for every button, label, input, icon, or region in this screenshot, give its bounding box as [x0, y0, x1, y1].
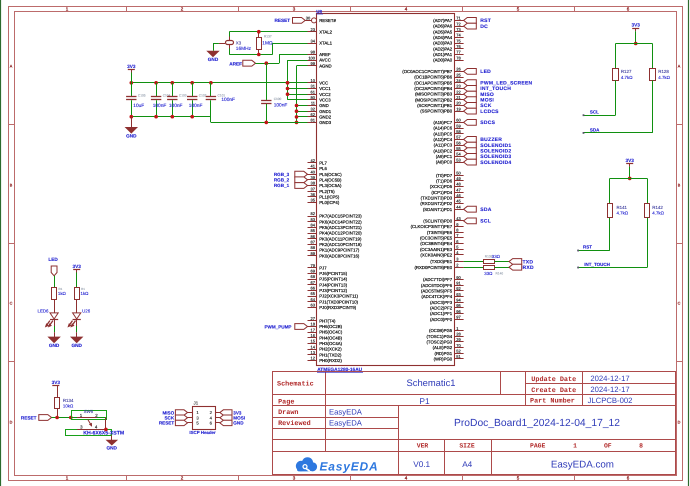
- svg-text:VCC: VCC: [319, 80, 328, 85]
- svg-text:66: 66: [311, 286, 316, 291]
- svg-text:(WR)PG0: (WR)PG0: [434, 357, 453, 362]
- svg-text:71: 71: [456, 16, 461, 21]
- svg-text:C105: C105: [138, 93, 146, 97]
- svg-text:RXD: RXD: [523, 265, 534, 271]
- svg-text:PH5(OC4C): PH5(OC4C): [319, 330, 343, 335]
- svg-text:42: 42: [311, 158, 316, 163]
- svg-text:45: 45: [456, 199, 461, 204]
- svg-text:32: 32: [311, 106, 316, 111]
- svg-text:PK5(ADC13PCINT21): PK5(ADC13PCINT21): [319, 225, 362, 230]
- svg-text:19: 19: [456, 106, 461, 111]
- svg-text:(ICP1)PD4: (ICP1)PD4: [431, 190, 452, 195]
- svg-text:24: 24: [456, 78, 461, 83]
- svg-text:59: 59: [456, 123, 461, 128]
- svg-text:PAGE: PAGE: [530, 442, 546, 449]
- svg-text:D: D: [678, 421, 681, 425]
- svg-text:10kΩ: 10kΩ: [63, 404, 74, 409]
- svg-text:PK1(ADC9PCINT17): PK1(ADC9PCINT17): [319, 248, 360, 253]
- svg-text:J1: J1: [194, 401, 199, 406]
- svg-text:100nF: 100nF: [274, 102, 288, 108]
- svg-text:R127: R127: [621, 69, 632, 74]
- svg-text:(AD3)PA3: (AD3)PA3: [433, 41, 453, 46]
- svg-text:(MISOPCINT3)PB3: (MISOPCINT3)PB3: [415, 92, 453, 97]
- svg-text:62: 62: [311, 112, 316, 117]
- svg-text:VCC3: VCC3: [319, 97, 331, 102]
- svg-text:(TXD0)PE1: (TXD0)PE1: [430, 259, 453, 264]
- svg-text:GND: GND: [233, 421, 244, 426]
- svg-text:(SCKPCINT1)PB1: (SCKPCINT1)PB1: [417, 103, 453, 108]
- svg-text:PJ7: PJ7: [319, 265, 327, 270]
- svg-text:(AD6)PA6: (AD6)PA6: [433, 24, 453, 29]
- svg-text:SW6: SW6: [84, 409, 94, 414]
- svg-text:B: B: [10, 184, 13, 188]
- svg-text:GND: GND: [71, 343, 82, 348]
- svg-text:1: 1: [573, 442, 577, 449]
- svg-text:XTAL1: XTAL1: [319, 41, 332, 46]
- svg-text:25: 25: [456, 72, 461, 77]
- svg-text:C103: C103: [179, 93, 187, 97]
- svg-text:47: 47: [456, 187, 461, 192]
- svg-text:EasyEDA: EasyEDA: [320, 459, 379, 473]
- svg-text:54: 54: [456, 152, 461, 157]
- svg-text:R140: R140: [496, 272, 504, 276]
- svg-text:PK4(ADC12PCINT20): PK4(ADC12PCINT20): [319, 231, 362, 236]
- svg-text:94: 94: [456, 298, 461, 303]
- svg-text:74: 74: [456, 33, 461, 38]
- svg-text:PJ3(PCINT12): PJ3(PCINT12): [319, 288, 348, 293]
- svg-text:(OC3BINT4)PE4: (OC3BINT4)PE4: [420, 241, 453, 246]
- svg-text:C101: C101: [218, 93, 226, 97]
- svg-text:PJ4(PCINT13): PJ4(PCINT13): [319, 282, 348, 287]
- svg-text:16MHz: 16MHz: [236, 46, 252, 52]
- svg-text:40: 40: [311, 169, 316, 174]
- svg-text:96: 96: [456, 309, 461, 314]
- svg-text:79: 79: [311, 263, 316, 268]
- svg-text:R141: R141: [617, 205, 628, 210]
- svg-text:(AD1)PA1: (AD1)PA1: [433, 52, 453, 57]
- svg-text:PL2(T5): PL2(T5): [319, 189, 335, 194]
- svg-text:C: C: [10, 302, 13, 306]
- svg-text:50: 50: [456, 170, 461, 175]
- svg-text:(ADC4TCK)PF4: (ADC4TCK)PF4: [421, 294, 452, 299]
- svg-text:(ADC2)PF2: (ADC2)PF2: [430, 306, 453, 311]
- svg-text:SCL: SCL: [590, 110, 599, 115]
- svg-text:ProDoc_Board1_2024-12-04_17_12: ProDoc_Board1_2024-12-04_17_12: [454, 418, 620, 429]
- svg-text:GND2: GND2: [319, 115, 332, 120]
- svg-text:69: 69: [311, 269, 316, 274]
- svg-text:(AD7)PA7: (AD7)PA7: [433, 18, 453, 23]
- svg-text:(TXD1INT3)PD3: (TXD1INT3)PD3: [421, 196, 453, 201]
- svg-text:10uF: 10uF: [133, 103, 144, 109]
- svg-text:(A10)PC2: (A10)PC2: [433, 148, 452, 153]
- svg-text:37: 37: [311, 186, 316, 191]
- svg-text:100nF: 100nF: [189, 103, 203, 109]
- svg-text:14: 14: [311, 344, 316, 349]
- svg-text:(XCK1)PD5: (XCK1)PD5: [430, 184, 453, 189]
- svg-text:P1: P1: [419, 396, 430, 406]
- svg-text:Schematic1: Schematic1: [407, 377, 456, 388]
- svg-text:68: 68: [311, 274, 316, 279]
- svg-text:PK0(ADC8PCINT16): PK0(ADC8PCINT16): [319, 253, 360, 258]
- svg-text:75: 75: [456, 38, 461, 43]
- svg-text:34: 34: [311, 38, 316, 43]
- svg-text:(T1)PD6: (T1)PD6: [436, 179, 453, 184]
- svg-text:GND: GND: [126, 134, 137, 139]
- svg-text:33Ω: 33Ω: [492, 254, 501, 259]
- svg-text:(ADC1)PF1: (ADC1)PF1: [430, 311, 453, 316]
- svg-text:41: 41: [311, 164, 316, 169]
- svg-text:LED6: LED6: [38, 309, 50, 314]
- svg-text:PK2(ADC10PCINT18): PK2(ADC10PCINT18): [319, 242, 362, 247]
- svg-text:81: 81: [311, 118, 316, 123]
- svg-text:(OC0AOC1CPCINT7)PB7: (OC0AOC1CPCINT7)PB7: [402, 69, 453, 74]
- svg-text:C102: C102: [199, 93, 207, 97]
- svg-text:3V3: 3V3: [626, 158, 635, 163]
- svg-text:SDA: SDA: [480, 207, 491, 213]
- svg-text:R137: R137: [264, 34, 272, 38]
- svg-text:(ADC7TDI)PF7: (ADC7TDI)PF7: [423, 277, 453, 282]
- svg-text:63: 63: [311, 303, 316, 308]
- svg-text:82: 82: [311, 211, 316, 216]
- svg-text:49: 49: [456, 176, 461, 181]
- svg-text:60: 60: [456, 118, 461, 123]
- svg-text:(ADC0)PF0: (ADC0)PF0: [430, 317, 453, 322]
- svg-text:V0.1: V0.1: [413, 460, 430, 469]
- svg-text:(AD2)PA2: (AD2)PA2: [433, 46, 453, 51]
- svg-text:29: 29: [456, 337, 461, 342]
- svg-text:SOLENOID4: SOLENOID4: [480, 160, 511, 166]
- svg-text:(RD)PG1: (RD)PG1: [435, 351, 453, 356]
- svg-text:95: 95: [456, 303, 461, 308]
- svg-text:PH4(OC4B): PH4(OC4B): [319, 335, 342, 340]
- svg-text:AGND: AGND: [319, 63, 331, 68]
- svg-text:10: 10: [311, 78, 316, 83]
- svg-text:58: 58: [456, 129, 461, 134]
- svg-text:(A12)PC4: (A12)PC4: [433, 137, 452, 142]
- svg-text:(MOSIPCINT2)PB2: (MOSIPCINT2)PB2: [415, 97, 453, 102]
- svg-text:RESET#: RESET#: [319, 18, 336, 23]
- svg-text:48: 48: [456, 182, 461, 187]
- svg-text:SDA: SDA: [590, 127, 600, 132]
- svg-text:RESET: RESET: [159, 421, 175, 426]
- svg-text:U8: U8: [316, 9, 322, 14]
- svg-text:GND: GND: [208, 57, 219, 62]
- svg-text:28: 28: [456, 332, 461, 337]
- svg-text:PJ0(RXD3PCINT9): PJ0(RXD3PCINT9): [319, 305, 357, 310]
- svg-text:(ALE)PG2: (ALE)PG2: [433, 345, 453, 350]
- svg-text:VCC2: VCC2: [319, 92, 331, 97]
- svg-text:VCC1: VCC1: [319, 86, 331, 91]
- svg-text:D: D: [10, 421, 13, 425]
- svg-text:SDCS: SDCS: [480, 120, 495, 126]
- svg-text:(TOSC1)PG4: (TOSC1)PG4: [426, 334, 452, 339]
- svg-text:91: 91: [456, 281, 461, 286]
- svg-text:(OC3CINT5)PE5: (OC3CINT5)PE5: [420, 236, 453, 241]
- svg-text:C100: C100: [274, 97, 282, 101]
- svg-text:92: 92: [456, 286, 461, 291]
- svg-text:PL6: PL6: [319, 166, 327, 171]
- svg-text:(A8)PC0: (A8)PC0: [436, 160, 453, 165]
- svg-text:15: 15: [311, 339, 316, 344]
- svg-text:LED: LED: [480, 69, 491, 75]
- svg-text:(ADC6TDO)PF6: (ADC6TDO)PF6: [421, 283, 453, 288]
- svg-text:78: 78: [456, 55, 461, 60]
- svg-text:(SSPCINT0)PB0: (SSPCINT0)PB0: [420, 109, 453, 114]
- svg-text:73: 73: [456, 27, 461, 32]
- svg-text:RESET: RESET: [21, 415, 37, 420]
- svg-text:PK3(ADC11PCINT19): PK3(ADC11PCINT19): [319, 236, 362, 241]
- svg-text:39: 39: [311, 175, 316, 180]
- svg-text:VER: VER: [417, 442, 429, 449]
- svg-text:(OC1APCINT5)PB5: (OC1APCINT5)PB5: [414, 80, 453, 85]
- svg-text:PK6(ADC14PCINT22): PK6(ADC14PCINT22): [319, 219, 362, 224]
- svg-text:(A13)PC5: (A13)PC5: [433, 131, 452, 136]
- svg-text:GND1: GND1: [319, 109, 332, 114]
- svg-text:72: 72: [456, 21, 461, 26]
- svg-text:55: 55: [456, 146, 461, 151]
- svg-text:EasyEDA: EasyEDA: [329, 407, 363, 416]
- svg-text:22: 22: [456, 89, 461, 94]
- svg-text:20: 20: [456, 101, 461, 106]
- svg-text:76: 76: [456, 44, 461, 49]
- svg-text:(SDAINT1)PD1: (SDAINT1)PD1: [423, 207, 453, 212]
- svg-text:83: 83: [311, 217, 316, 222]
- svg-text:4.7kΩ: 4.7kΩ: [621, 75, 633, 80]
- svg-text:1MΩ: 1MΩ: [262, 41, 273, 47]
- svg-text:70: 70: [456, 343, 461, 348]
- svg-text:(ADC3)PF3: (ADC3)PF3: [430, 300, 453, 305]
- svg-text:GND3: GND3: [319, 120, 332, 125]
- svg-text:SCL: SCL: [480, 219, 491, 225]
- svg-text:(SCLINT0)PD0: (SCLINT0)PD0: [423, 219, 453, 224]
- svg-text:EasyEDA.com: EasyEDA.com: [551, 459, 614, 470]
- svg-text:3V3: 3V3: [632, 23, 641, 28]
- svg-text:GND: GND: [106, 445, 117, 450]
- svg-text:2024-12-17: 2024-12-17: [590, 385, 629, 394]
- svg-text:8: 8: [639, 442, 643, 449]
- svg-text:35: 35: [311, 198, 316, 203]
- svg-text:U26: U26: [82, 309, 91, 314]
- svg-text:100: 100: [308, 55, 315, 60]
- svg-text:GND: GND: [319, 103, 329, 108]
- svg-text:XTAL2: XTAL2: [319, 29, 332, 34]
- svg-text:PH0(RXD2): PH0(RXD2): [319, 358, 342, 363]
- svg-text:PK7(ADC15PCINT23): PK7(ADC15PCINT23): [319, 214, 362, 219]
- svg-text:PL4(OC5B): PL4(OC5B): [319, 177, 342, 182]
- svg-text:PH6(OC2B): PH6(OC2B): [319, 324, 342, 329]
- svg-text:LED: LED: [48, 257, 58, 262]
- svg-text:B: B: [678, 184, 681, 188]
- svg-text:57: 57: [456, 135, 461, 140]
- svg-text:RGB_3: RGB_3: [274, 172, 290, 177]
- svg-text:PH1(TXD2): PH1(TXD2): [319, 352, 342, 357]
- svg-text:R134: R134: [63, 398, 74, 403]
- svg-text:53: 53: [456, 157, 461, 162]
- svg-text:(RXD1INT2)PD2: (RXD1INT2)PD2: [420, 201, 453, 206]
- svg-text:PJ6(PCINT15): PJ6(PCINT15): [319, 271, 348, 276]
- svg-text:RGB_2: RGB_2: [274, 178, 290, 183]
- svg-text:PJ2(XCK3PCINT11): PJ2(XCK3PCINT11): [319, 294, 358, 299]
- svg-text:(AD4)PA4: (AD4)PA4: [433, 35, 453, 40]
- svg-text:EasyEDA: EasyEDA: [329, 419, 363, 428]
- svg-text:93: 93: [456, 292, 461, 297]
- svg-text:86: 86: [311, 234, 316, 239]
- svg-text:RST: RST: [583, 245, 592, 250]
- svg-text:C: C: [678, 302, 681, 306]
- svg-text:R128: R128: [658, 69, 669, 74]
- svg-text:21: 21: [456, 95, 461, 100]
- svg-text:(AD5)PA5: (AD5)PA5: [433, 29, 453, 34]
- svg-text:Update Date: Update Date: [531, 376, 576, 384]
- svg-text:(A9)PC1: (A9)PC1: [436, 154, 453, 159]
- svg-text:3V3: 3V3: [73, 264, 82, 269]
- svg-text:Part Number: Part Number: [530, 398, 575, 406]
- svg-text:36: 36: [311, 192, 316, 197]
- svg-text:84: 84: [311, 223, 316, 228]
- svg-text:13: 13: [311, 350, 316, 355]
- svg-text:26: 26: [456, 67, 461, 72]
- svg-text:67: 67: [311, 280, 316, 285]
- svg-text:3V3: 3V3: [52, 380, 61, 385]
- svg-text:4.7kΩ: 4.7kΩ: [617, 211, 629, 216]
- svg-text:Create Date: Create Date: [531, 387, 576, 395]
- svg-text:PH3(OC4A): PH3(OC4A): [319, 341, 342, 346]
- svg-text:1kΩ: 1kΩ: [58, 291, 67, 296]
- svg-text:(OC0B)PG5: (OC0B)PG5: [429, 328, 453, 333]
- svg-text:97: 97: [456, 315, 461, 320]
- svg-text:17: 17: [311, 327, 316, 332]
- svg-text:A: A: [678, 65, 681, 69]
- svg-text:3V3: 3V3: [127, 64, 136, 69]
- svg-text:PL0(ICP4): PL0(ICP4): [319, 200, 340, 205]
- svg-text:DC: DC: [480, 24, 488, 30]
- svg-text:38: 38: [311, 181, 316, 186]
- svg-text:89: 89: [311, 251, 316, 256]
- svg-text:(A14)PC6: (A14)PC6: [433, 126, 452, 131]
- svg-text:PJ1(TXD3PCINT10): PJ1(TXD3PCINT10): [319, 299, 358, 304]
- svg-text:Drawn: Drawn: [278, 409, 298, 417]
- svg-text:(TOSC2)PG3: (TOSC2)PG3: [426, 340, 452, 345]
- svg-text:A4: A4: [462, 460, 472, 469]
- svg-text:RGB_1: RGB_1: [274, 183, 290, 188]
- svg-text:(RXD0PCINT8)PE0: (RXD0PCINT8)PE0: [414, 265, 452, 270]
- svg-text:(OC3AAIN1)PE3: (OC3AAIN1)PE3: [420, 247, 453, 252]
- svg-text:Reviewed: Reviewed: [278, 420, 311, 428]
- svg-text:Schematic: Schematic: [277, 381, 314, 389]
- svg-text:(XCK0AIN0)PE2: (XCK0AIN0)PE2: [420, 253, 452, 258]
- svg-text:PJ5(PCINT14): PJ5(PCINT14): [319, 277, 348, 282]
- svg-text:X3: X3: [236, 41, 242, 46]
- svg-text:61: 61: [311, 89, 316, 94]
- svg-text:PH2(XCK2): PH2(XCK2): [319, 347, 342, 352]
- svg-text:31: 31: [311, 84, 316, 89]
- svg-text:27: 27: [311, 316, 316, 321]
- svg-text:2024-12-17: 2024-12-17: [590, 374, 629, 383]
- svg-text:PL1(ICP5): PL1(ICP5): [319, 195, 340, 200]
- svg-text:18: 18: [311, 322, 316, 327]
- svg-text:87: 87: [311, 240, 316, 245]
- svg-text:23: 23: [456, 84, 461, 89]
- svg-text:33Ω: 33Ω: [484, 271, 493, 276]
- svg-text:RESET: RESET: [275, 18, 291, 23]
- svg-text:PL7: PL7: [319, 160, 327, 165]
- svg-text:(A15)PC7: (A15)PC7: [433, 120, 452, 125]
- svg-text:LCDCS: LCDCS: [480, 109, 499, 115]
- svg-text:(CLKOICP3INT7)PE7: (CLKOICP3INT7)PE7: [411, 224, 453, 229]
- svg-text:(ADC5TMS)PF5: (ADC5TMS)PF5: [421, 289, 453, 294]
- svg-text:12: 12: [311, 356, 316, 361]
- svg-text:PL3(OC5A): PL3(OC5A): [319, 183, 342, 188]
- svg-text:99: 99: [311, 61, 316, 66]
- svg-text:65: 65: [311, 291, 316, 296]
- svg-text:30: 30: [306, 16, 311, 21]
- svg-text:(T0)PD7: (T0)PD7: [436, 173, 453, 178]
- svg-text:(OC1BPCINT6)PB6: (OC1BPCINT6)PB6: [414, 75, 453, 80]
- svg-text:90: 90: [456, 275, 461, 280]
- svg-text:Page: Page: [278, 398, 294, 406]
- svg-text:100nF: 100nF: [221, 97, 235, 103]
- svg-text:SIZE: SIZE: [459, 442, 475, 449]
- svg-text:23: 23: [311, 27, 316, 32]
- svg-text:88: 88: [311, 245, 316, 250]
- svg-text:(T3INT6)PE6: (T3INT6)PE6: [427, 230, 453, 235]
- svg-text:85: 85: [311, 228, 316, 233]
- svg-text:JLCPCB-002: JLCPCB-002: [588, 396, 633, 405]
- svg-text:AREF: AREF: [229, 61, 242, 66]
- svg-text:80: 80: [311, 95, 316, 100]
- svg-text:98: 98: [311, 50, 316, 55]
- svg-text:51: 51: [456, 354, 461, 359]
- svg-text:4.7kΩ: 4.7kΩ: [658, 75, 670, 80]
- svg-text:100nF: 100nF: [153, 103, 167, 109]
- svg-text:46: 46: [456, 193, 461, 198]
- svg-text:INT_TOUCH: INT_TOUCH: [584, 262, 610, 267]
- svg-text:KH-6X6X5-XSTM: KH-6X6X5-XSTM: [83, 431, 124, 437]
- svg-text:52: 52: [456, 349, 461, 354]
- svg-text:AREF: AREF: [319, 52, 331, 57]
- svg-text:44: 44: [456, 204, 461, 209]
- svg-text:(AD0)PA0: (AD0)PA0: [433, 58, 453, 63]
- svg-text:R142: R142: [652, 205, 663, 210]
- svg-text:A: A: [10, 65, 13, 69]
- svg-text:PH7(T4): PH7(T4): [319, 318, 336, 323]
- svg-text:(A11)PC3: (A11)PC3: [434, 143, 453, 148]
- svg-text:AVCC: AVCC: [319, 58, 331, 63]
- svg-text:43: 43: [456, 216, 461, 221]
- svg-text:GND: GND: [49, 343, 60, 348]
- svg-text:PWM_PUMP: PWM_PUMP: [264, 324, 291, 329]
- svg-text:16: 16: [311, 333, 316, 338]
- svg-text:(OC2APCINT4)PB4: (OC2APCINT4)PB4: [414, 86, 453, 91]
- svg-text:1kΩ: 1kΩ: [81, 291, 90, 296]
- svg-text:64: 64: [311, 297, 316, 302]
- svg-text:OF: OF: [604, 442, 612, 449]
- svg-text:PL5(OC5C): PL5(OC5C): [319, 172, 342, 177]
- svg-text:77: 77: [456, 50, 461, 55]
- svg-text:100nF: 100nF: [169, 103, 183, 109]
- svg-text:4.7kΩ: 4.7kΩ: [652, 211, 664, 216]
- svg-text:56: 56: [456, 140, 461, 145]
- svg-text:ISCP Header: ISCP Header: [189, 430, 216, 435]
